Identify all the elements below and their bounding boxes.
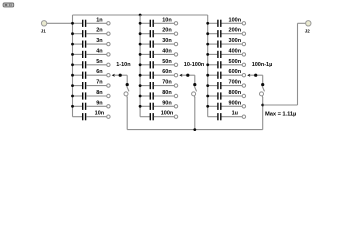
- wire output node to J2 riser: [263, 104, 298, 106]
- svg-text:9n: 9n: [96, 100, 103, 106]
- svg-text:1u: 1u: [232, 111, 238, 117]
- node bus3 row5 junction: [206, 63, 209, 66]
- svg-text:J2: J2: [305, 28, 311, 33]
- svg-text:800n: 800n: [229, 90, 242, 96]
- node bus1 row1 junction: [71, 22, 74, 25]
- capacitor C16 value 60n: [140, 69, 178, 79]
- switch S1 label 1-10n: [116, 62, 131, 68]
- capacitor C8 value 8n: [73, 90, 111, 100]
- svg-text:J1: J1: [41, 28, 47, 33]
- connector J1: [41, 21, 47, 34]
- node bus3 row7 junction: [206, 84, 209, 87]
- node top bus / bus2 junction: [139, 14, 142, 17]
- svg-text:100n-1µ: 100n-1µ: [252, 62, 273, 68]
- svg-text:7n: 7n: [96, 80, 103, 86]
- node bus2 row2 junction: [139, 32, 142, 35]
- node bus1 row2 junction: [71, 32, 74, 35]
- node bus3 row1 junction: [206, 22, 209, 25]
- wire S1 pivot down: [126, 96, 128, 130]
- wire S2 pivot down: [193, 96, 195, 130]
- capacitor C3 value 3n: [73, 38, 111, 48]
- node bus1 row3 junction: [71, 43, 74, 46]
- capacitor C11 value 10n: [140, 17, 178, 27]
- wire J2 riser: [297, 23, 299, 105]
- svg-text:Max = 1.11µ: Max = 1.11µ: [265, 112, 296, 118]
- logo badge: [3, 3, 14, 7]
- capacitor C21 value 100n: [208, 17, 246, 27]
- svg-text:900n: 900n: [229, 100, 242, 106]
- switch S3 label 100n-1µ: [252, 62, 273, 68]
- capacitor C13 value 30n: [140, 38, 178, 48]
- capacitor C17 value 70n: [140, 80, 178, 90]
- capacitor C2 value 2n: [73, 28, 111, 38]
- node bus1 row7 junction: [71, 84, 74, 87]
- svg-text:400n: 400n: [229, 48, 242, 54]
- capacitor C23 value 300n: [208, 38, 246, 48]
- svg-text:500n: 500n: [229, 59, 242, 65]
- svg-text:90n: 90n: [162, 100, 172, 106]
- svg-text:10-100n: 10-100n: [184, 62, 205, 68]
- node bottom bus / S2 junction: [193, 128, 196, 131]
- wire bottom bus up to output node: [262, 105, 264, 130]
- node bus2 row5 junction: [139, 63, 142, 66]
- capacitor C12 value 20n: [140, 28, 178, 38]
- capacitor C1 value 1n: [73, 17, 111, 27]
- capacitor C20 value 100n: [140, 111, 178, 121]
- node bus2 row1 junction: [139, 22, 142, 25]
- svg-text:6n: 6n: [96, 69, 103, 75]
- capacitor C26 value 600n: [208, 69, 246, 79]
- node bus1 row4 junction: [71, 53, 74, 56]
- capacitor C25 value 500n: [208, 59, 246, 69]
- switch S2 wiper arrow on contact 6: [179, 74, 196, 87]
- capacitor C7 value 7n: [73, 80, 111, 90]
- capacitor C19 value 90n: [140, 100, 178, 110]
- node bus2 row8 junction: [139, 95, 142, 98]
- capacitor C15 value 50n: [140, 59, 178, 69]
- node bus1 row9 junction: [71, 105, 74, 108]
- capacitor C24 value 400n: [208, 48, 246, 58]
- svg-text:10n: 10n: [162, 17, 172, 23]
- wire bottom bus: [127, 129, 263, 131]
- svg-text:40n: 40n: [162, 48, 172, 54]
- svg-text:70n: 70n: [162, 80, 172, 86]
- node bus2 row3 junction: [139, 43, 142, 46]
- capacitor C9 value 9n: [73, 100, 111, 110]
- wire vertical bus column 1: [72, 15, 74, 117]
- wire vertical bus column 3: [207, 15, 209, 117]
- svg-text:80n: 80n: [162, 90, 172, 96]
- svg-text:20n: 20n: [162, 28, 172, 34]
- switch S2 label 10-100n: [184, 62, 205, 68]
- wire J1 to bus1: [47, 22, 73, 24]
- svg-text:8n: 8n: [96, 90, 103, 96]
- capacitor C18 value 80n: [140, 90, 178, 100]
- capacitor C28 value 800n: [208, 90, 246, 100]
- capacitor C4 value 4n: [73, 48, 111, 58]
- svg-text:5n: 5n: [96, 59, 103, 65]
- capacitor C30 value 1u: [208, 111, 246, 121]
- svg-text:30n: 30n: [162, 38, 172, 44]
- svg-text:50n: 50n: [162, 59, 172, 65]
- svg-text:3n: 3n: [96, 38, 103, 44]
- svg-text:200n: 200n: [229, 28, 242, 34]
- svg-text:1-10n: 1-10n: [116, 62, 131, 68]
- capacitor C29 value 900n: [208, 100, 246, 110]
- node bus3 row3 junction: [206, 43, 209, 46]
- node bus1 row5 junction: [71, 63, 74, 66]
- svg-text:100n: 100n: [229, 17, 242, 23]
- capacitor C22 value 200n: [208, 28, 246, 38]
- node bus1 row8 junction: [71, 95, 74, 98]
- node bus2 row4 junction: [139, 53, 142, 56]
- svg-text:1n: 1n: [96, 17, 103, 23]
- wire riser to J2: [298, 22, 306, 24]
- svg-text:300n: 300n: [229, 38, 242, 44]
- svg-text:100n: 100n: [161, 111, 174, 117]
- capacitor C14 value 40n: [140, 48, 178, 58]
- switch S3 lever and pivot: [260, 86, 265, 96]
- node bus3 row2 junction: [206, 32, 209, 35]
- svg-text:2n: 2n: [96, 28, 103, 34]
- capacitor C27 value 700n: [208, 80, 246, 90]
- capacitor C5 value 5n: [73, 59, 111, 69]
- svg-text:700n: 700n: [229, 80, 242, 86]
- svg-text:4n: 4n: [96, 48, 103, 54]
- capacitor C10 value 10n: [73, 111, 111, 121]
- switch S2 lever and pivot: [192, 86, 197, 96]
- node bus2 row7 junction: [139, 84, 142, 87]
- connector J2: [305, 21, 311, 34]
- svg-text:10n: 10n: [95, 111, 105, 117]
- node bus3 row9 junction: [206, 105, 209, 108]
- node output junction: [261, 104, 264, 107]
- node bus3 row8 junction: [206, 95, 209, 98]
- node bus3 row4 junction: [206, 53, 209, 56]
- node bus2 row9 junction: [139, 105, 142, 108]
- switch S1 lever and pivot: [124, 86, 129, 96]
- capacitor C6 value 6n: [73, 69, 111, 79]
- switch S3 wiper arrow on contact 6: [247, 74, 264, 87]
- node bus1 row6 junction: [71, 74, 74, 77]
- wire vertical bus column 2: [139, 15, 141, 117]
- svg-text:600n: 600n: [229, 69, 242, 75]
- svg-text:60n: 60n: [162, 69, 172, 75]
- node bus2 row6 junction: [139, 74, 142, 77]
- wire S3 pivot down: [261, 96, 263, 105]
- node bus3 row6 junction: [206, 74, 209, 77]
- label Max = 1.11u: [265, 112, 296, 118]
- wire top bus: [73, 14, 208, 16]
- switch S1 wiper arrow on contact 6: [112, 74, 129, 87]
